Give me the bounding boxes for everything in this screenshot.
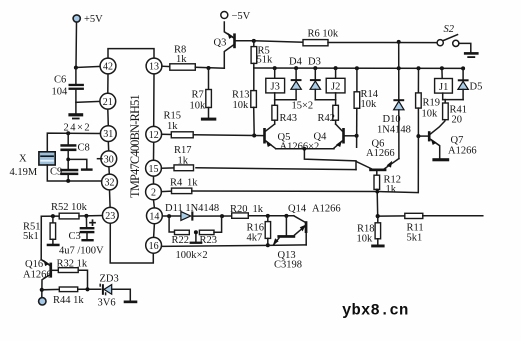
wire [315, 99, 335, 101]
capacitor C3 [59, 216, 104, 257]
relay J1 [435, 68, 453, 99]
svg-text:R32 1k: R32 1k [57, 259, 88, 270]
resistor R23 [176, 216, 222, 261]
wire [252, 39, 303, 43]
svg-text:1N4148: 1N4148 [377, 125, 411, 136]
svg-text:D10: D10 [383, 114, 401, 125]
svg-text:100k×2: 100k×2 [176, 250, 208, 261]
svg-text:C3: C3 [69, 231, 81, 242]
svg-text:X: X [19, 154, 27, 165]
svg-text:A1266: A1266 [448, 146, 477, 157]
wire [162, 245, 307, 247]
svg-text:J1: J1 [439, 82, 448, 93]
svg-text:10k: 10k [190, 101, 207, 112]
svg-text:D3: D3 [308, 57, 321, 68]
resistor R7 [190, 68, 212, 117]
svg-text:10k: 10k [361, 99, 378, 110]
wire [107, 74, 109, 93]
svg-text:R22: R22 [172, 235, 190, 246]
resistor R16 [247, 216, 271, 247]
relay J2 [326, 68, 345, 100]
svg-text:30: 30 [104, 154, 114, 165]
svg-text:42: 42 [103, 62, 113, 73]
resistor R18 [357, 216, 381, 244]
svg-text:15: 15 [149, 164, 159, 175]
wire [108, 167, 110, 174]
transistor Q16 [23, 259, 58, 298]
resistor R32 [57, 259, 88, 290]
svg-text:1k: 1k [176, 54, 187, 65]
ground [190, 230, 203, 244]
pin 15 [146, 160, 162, 176]
diode D10 [377, 42, 411, 159]
svg-text:A1266: A1266 [23, 270, 52, 281]
wire [107, 142, 109, 151]
wire [328, 40, 437, 44]
resistor R22 [169, 216, 189, 246]
svg-text:D5: D5 [470, 82, 483, 93]
resistor R11 [405, 213, 483, 243]
svg-text:+5V: +5V [84, 14, 103, 25]
resistor R8 [162, 45, 195, 71]
svg-text:15×2: 15×2 [292, 101, 314, 112]
svg-text:ybx8.cn: ybx8.cn [342, 302, 409, 320]
svg-text:31: 31 [103, 129, 113, 140]
pin 2 [146, 184, 162, 200]
svg-text:R43: R43 [280, 113, 298, 124]
resistor R12 [374, 171, 401, 195]
terminal [39, 298, 46, 305]
svg-text:1k: 1k [386, 184, 397, 195]
diode D4 [289, 57, 303, 100]
-5V terminal [221, 11, 251, 22]
svg-text:10k: 10k [357, 234, 374, 245]
svg-text:R42: R42 [318, 113, 336, 124]
svg-text:10k: 10k [422, 109, 439, 120]
svg-text:R52 10k: R52 10k [51, 202, 88, 213]
svg-text:21: 21 [103, 97, 113, 108]
transistor Q7 [416, 120, 476, 158]
svg-text:14: 14 [149, 211, 159, 222]
svg-text:R4: R4 [170, 178, 183, 189]
resistor R15 [162, 111, 255, 138]
wire [153, 74, 155, 127]
resistor R51 [23, 216, 56, 244]
transistor Q13 [273, 216, 306, 271]
svg-text:C8: C8 [78, 143, 90, 154]
wire [153, 200, 156, 208]
wire [459, 43, 471, 52]
transistor Q6 [196, 139, 399, 172]
wire [376, 214, 405, 218]
resistor R5 [251, 41, 273, 68]
svg-text:23: 23 [105, 211, 115, 222]
svg-text:5k1: 5k1 [407, 233, 423, 244]
svg-text:5k1: 5k1 [23, 231, 39, 242]
diode D5 [458, 68, 483, 99]
svg-text:4.19M: 4.19M [10, 167, 38, 178]
resistor R13 [232, 68, 256, 136]
svg-text:2: 2 [151, 188, 156, 199]
ground [201, 118, 216, 121]
svg-text:Q7: Q7 [451, 135, 464, 146]
relay J3 [266, 68, 285, 100]
svg-text:J3: J3 [271, 82, 280, 93]
resistor R52 [41, 202, 102, 219]
resistor R20 [230, 204, 294, 218]
svg-text:10k: 10k [233, 100, 250, 111]
svg-text:TMP47C400BN-RH51: TMP47C400BN-RH51 [128, 94, 142, 197]
wire [153, 224, 156, 238]
svg-text:R20: R20 [230, 204, 248, 215]
ground [371, 245, 384, 248]
svg-text:Q16: Q16 [25, 259, 43, 270]
svg-text:A1266: A1266 [312, 204, 341, 215]
resistor R6 [303, 29, 339, 46]
svg-text:ZD3: ZD3 [100, 274, 119, 285]
svg-text:51k: 51k [257, 55, 274, 66]
wire [276, 147, 356, 170]
svg-text:A1266×2: A1266×2 [280, 142, 320, 153]
wire [74, 22, 101, 69]
pin 12 [146, 126, 162, 142]
wire [153, 176, 155, 184]
svg-text:D4: D4 [289, 57, 303, 68]
svg-text:4k7: 4k7 [247, 233, 263, 244]
wire [76, 100, 100, 103]
svg-text:24×2: 24×2 [64, 123, 92, 134]
resistor R19 [416, 68, 440, 136]
svg-text:1k: 1k [167, 121, 178, 132]
resistor R14 [354, 68, 379, 147]
transistor Q3 [214, 22, 254, 68]
ground [124, 301, 138, 304]
svg-text:12: 12 [149, 130, 159, 141]
pin 42 [100, 58, 116, 74]
capacitor C9 [50, 167, 78, 183]
svg-text:D11 1N4148: D11 1N4148 [165, 203, 219, 214]
wire [107, 109, 110, 126]
wire [195, 66, 224, 70]
svg-text:4u7 /100V: 4u7 /100V [59, 246, 104, 257]
svg-text:R19: R19 [423, 98, 441, 109]
pin 13 [146, 58, 162, 74]
svg-text:1k: 1k [178, 156, 189, 167]
wire [153, 142, 155, 160]
resistor R42 [318, 100, 339, 124]
pin 30 [101, 151, 117, 167]
pin 23 [102, 207, 118, 223]
transistor Q14 [288, 204, 341, 245]
svg-text:104: 104 [52, 87, 69, 98]
svg-text:Q3: Q3 [214, 38, 227, 49]
diode D11 [162, 203, 231, 221]
capacitor C8 [60, 123, 91, 169]
svg-text:A1266: A1266 [366, 148, 395, 159]
svg-text:C3198: C3198 [274, 260, 302, 271]
svg-text:R13: R13 [232, 90, 250, 101]
diode D3 [292, 57, 321, 112]
pin 14 [147, 208, 163, 224]
ground [432, 158, 449, 161]
svg-text:C9: C9 [50, 167, 62, 178]
ground [47, 244, 60, 247]
node bus [254, 66, 465, 70]
transistor Q4 [280, 124, 359, 153]
svg-text:16: 16 [149, 241, 159, 252]
svg-text:R15: R15 [164, 111, 182, 122]
crystal X1 [10, 133, 101, 181]
pin 16 [146, 237, 162, 253]
wire [109, 190, 112, 208]
svg-text:C6: C6 [54, 75, 66, 86]
svg-text:R7: R7 [192, 90, 204, 101]
svg-text:13: 13 [149, 62, 159, 73]
resistor R43 [272, 100, 297, 124]
resistor R4 [161, 136, 418, 194]
svg-text:1k: 1k [253, 204, 264, 215]
resistor R17 [161, 145, 193, 171]
ground [81, 239, 93, 241]
svg-text:32: 32 [105, 178, 115, 189]
transistor Q5 [252, 124, 290, 149]
svg-text:S2: S2 [444, 24, 455, 35]
wire [275, 99, 296, 101]
svg-text:R6 10k: R6 10k [308, 29, 339, 40]
ground [68, 113, 83, 119]
wire [375, 190, 379, 216]
svg-text:R23: R23 [200, 235, 218, 246]
svg-text:R44 1k: R44 1k [53, 295, 84, 306]
+5V terminal [73, 14, 103, 25]
resistor R44 [42, 287, 101, 306]
svg-text:J2: J2 [331, 82, 340, 93]
wire [443, 99, 463, 101]
ground [464, 52, 479, 58]
pin 32 [102, 174, 118, 190]
svg-text:1k: 1k [187, 178, 198, 189]
pin 31 [100, 126, 116, 142]
svg-text:20: 20 [452, 115, 463, 126]
capacitor C6 [52, 68, 84, 113]
svg-text:3V6: 3V6 [98, 298, 116, 309]
switch S2 [437, 24, 459, 47]
diode ZD3 [98, 274, 131, 309]
wire [110, 223, 153, 263]
svg-text:R17: R17 [174, 145, 192, 156]
ground [66, 158, 102, 171]
resistor R41 [443, 100, 467, 126]
wire [40, 216, 42, 259]
svg-text:Q14: Q14 [288, 204, 307, 215]
pin 21 [100, 93, 116, 109]
svg-text:−5V: −5V [232, 11, 251, 22]
wire [108, 49, 154, 59]
